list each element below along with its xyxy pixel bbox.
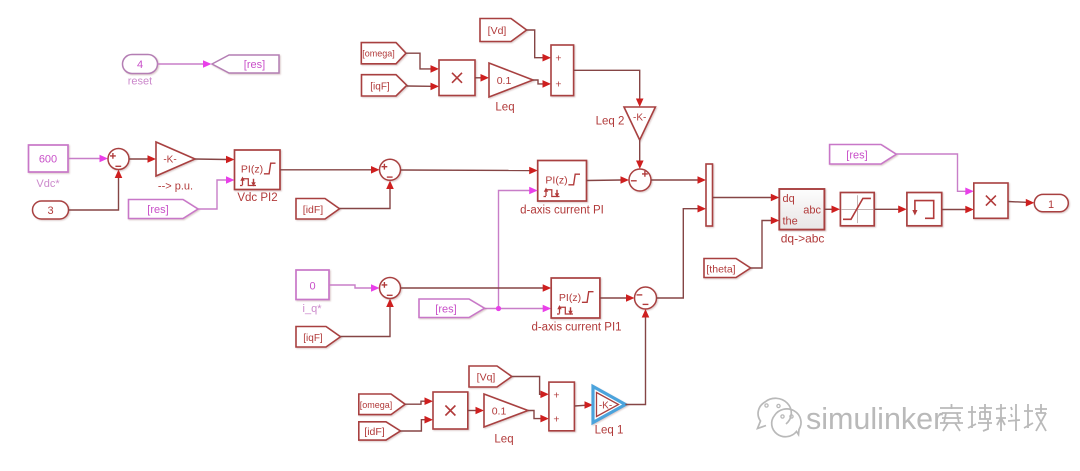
svg-text:abc: abc bbox=[803, 204, 821, 216]
svg-text:0.1: 0.1 bbox=[492, 405, 507, 417]
svg-text:PI(z): PI(z) bbox=[545, 174, 567, 186]
wire saturation to wrap bbox=[874, 206, 907, 214]
svg-text:3: 3 bbox=[47, 205, 53, 217]
svg-text:[idF]: [idF] bbox=[364, 426, 385, 438]
wrap-to-zero block bbox=[907, 193, 942, 226]
wire S4 to PI1 bbox=[401, 284, 552, 292]
wire [theta] to dq-abc bbox=[751, 217, 780, 268]
gain 0.1 Leq (top) bbox=[489, 63, 533, 97]
svg-text:Leq: Leq bbox=[495, 102, 514, 114]
constant 0 (i_q*) bbox=[296, 270, 329, 300]
gain -K- Leq 1 (blue) bbox=[593, 387, 625, 423]
label Leq (bottom) bbox=[494, 434, 513, 446]
wire wrap to product P3 bbox=[942, 206, 974, 214]
PI controller Vdc PI2 bbox=[235, 150, 281, 190]
svg-text:[iqF]: [iqF] bbox=[370, 81, 390, 92]
watermark logo bbox=[758, 398, 802, 436]
wire mux to dq-abc bbox=[713, 194, 780, 202]
svg-text:[omega]: [omega] bbox=[362, 49, 395, 59]
wire S3 to mux bbox=[651, 176, 706, 184]
wire P1 to gain Leq bbox=[475, 74, 489, 82]
wire [iqF] to product P1 bbox=[407, 83, 439, 91]
wire [omega] to product P1 bbox=[406, 53, 439, 72]
wire A2 to gain Leq1 bbox=[574, 401, 593, 409]
label Leq 2 bbox=[596, 116, 625, 128]
svg-text:simulinker: simulinker bbox=[806, 402, 943, 436]
wire [Vd] to sum A1 bbox=[527, 30, 551, 62]
svg-text:-K-: -K- bbox=[163, 155, 176, 166]
wire S5 to mux bbox=[657, 205, 707, 298]
sum S2 bbox=[380, 159, 401, 180]
from tag [omega] F9 bbox=[359, 394, 405, 415]
svg-text:600: 600 bbox=[39, 154, 57, 166]
wire Vdc PI2 to sum S2 bbox=[280, 166, 380, 174]
from tag [idF] F10 bbox=[359, 422, 401, 440]
sum S3 (d-axis) bbox=[629, 169, 651, 191]
wire 3 to sum S1 bbox=[69, 170, 123, 211]
svg-text:Leq 2: Leq 2 bbox=[596, 116, 625, 128]
wire PI1 to sum S5 bbox=[600, 294, 635, 302]
svg-text:reset: reset bbox=[128, 76, 152, 88]
svg-text:+: + bbox=[555, 79, 561, 91]
wire [idF] to product P2 bbox=[401, 416, 434, 431]
label d-axis current PI1 bbox=[531, 322, 621, 334]
svg-text:+: + bbox=[553, 414, 559, 426]
label Vdc PI2 bbox=[237, 192, 277, 204]
sum S5 (q-axis) bbox=[635, 287, 657, 309]
product P1 bbox=[439, 60, 475, 96]
label Vdc* bbox=[36, 178, 60, 190]
watermark text simulinker bbox=[806, 402, 943, 436]
wire 0 to sum S4 bbox=[329, 284, 380, 292]
wire d-axis PI to sum S3 bbox=[587, 176, 630, 184]
svg-text:PI(z): PI(z) bbox=[241, 163, 263, 175]
svg-text:[theta]: [theta] bbox=[706, 263, 735, 275]
product P2 bbox=[433, 392, 468, 429]
svg-text:Leq: Leq bbox=[494, 434, 513, 446]
gain -K- (p.u.) bbox=[156, 142, 195, 176]
svg-text:[res]: [res] bbox=[435, 304, 456, 316]
outport 1 bbox=[1034, 194, 1068, 211]
svg-text:+: + bbox=[555, 52, 561, 64]
sum block A2 bbox=[549, 382, 575, 431]
svg-text:-K-: -K- bbox=[633, 113, 646, 124]
wire Leq1 to sum S5 bbox=[625, 309, 649, 405]
svg-text:1: 1 bbox=[1048, 199, 1054, 211]
PI controller d-axis current PI bbox=[538, 161, 587, 202]
svg-text:[iqF]: [iqF] bbox=[303, 333, 323, 344]
inport 3 bbox=[33, 201, 69, 219]
svg-text:i_q*: i_q* bbox=[303, 303, 323, 315]
svg-text:Vdc*: Vdc* bbox=[36, 178, 60, 190]
wire reset to goto [res] bbox=[158, 60, 212, 68]
gain 0.1 Leq (bottom) bbox=[484, 394, 528, 427]
svg-text:Vdc PI2: Vdc PI2 bbox=[237, 192, 277, 204]
wire A1 to gain Leq2 bbox=[574, 70, 644, 107]
subsystem dq->abc U1 bbox=[779, 189, 824, 230]
from tag [res] F1 bbox=[129, 200, 199, 219]
svg-text:--> p.u.: --> p.u. bbox=[158, 181, 193, 193]
wire [res] net to PI resets bbox=[485, 187, 552, 313]
from tag [Vq] F8 bbox=[469, 366, 512, 387]
wire [Vq] to sum A2 bbox=[512, 377, 549, 399]
wire Leq to sum A1 bbox=[533, 80, 551, 88]
wire dq-abc to saturation bbox=[824, 206, 840, 214]
from tag [omega] F3 bbox=[361, 43, 406, 64]
svg-text:PI(z): PI(z) bbox=[559, 292, 581, 304]
wire Leq2 to sum S3 bbox=[636, 140, 644, 169]
svg-text:[Vq]: [Vq] bbox=[477, 372, 496, 384]
mux bbox=[706, 164, 713, 226]
svg-text:[res]: [res] bbox=[244, 59, 265, 71]
saturation block bbox=[840, 193, 874, 226]
PI controller d-axis current PI1 bbox=[551, 278, 600, 318]
svg-text:d-axis current PI1: d-axis current PI1 bbox=[531, 322, 621, 334]
svg-text:0.1: 0.1 bbox=[497, 75, 512, 87]
product P3 bbox=[974, 183, 1008, 218]
gain -K- Leq 2 (down) bbox=[624, 107, 655, 140]
label d-axis current PI bbox=[520, 205, 604, 217]
from tag [Vd] F5 bbox=[480, 19, 527, 42]
wire [omega] to product P2 bbox=[405, 397, 433, 405]
svg-text:+: + bbox=[553, 389, 559, 401]
svg-text:the: the bbox=[783, 215, 798, 227]
label reset bbox=[128, 76, 152, 88]
from tag [idF] F2 bbox=[296, 199, 340, 220]
wire K1 to Vdc PI2 bbox=[195, 156, 235, 164]
label Leq 1 bbox=[595, 425, 624, 437]
wire P3 to outport 1 bbox=[1008, 199, 1034, 207]
wire P2 to gain Leq b bbox=[468, 407, 484, 415]
from tag [theta] F11 bbox=[704, 259, 751, 278]
svg-text:Leq 1: Leq 1 bbox=[595, 425, 624, 437]
svg-text:0: 0 bbox=[309, 280, 315, 292]
wire S1 to gain K1 bbox=[129, 155, 156, 163]
constant 600 (Vdc*) bbox=[29, 145, 69, 172]
from tag [res] F12 bbox=[830, 145, 897, 165]
sum S4 bbox=[380, 278, 401, 299]
wire Leq to sum A2 bbox=[528, 411, 549, 423]
svg-text:-K-: -K- bbox=[599, 400, 612, 411]
goto tag [res] G1 bbox=[212, 55, 279, 73]
wire 600 to sum S1 bbox=[68, 155, 108, 163]
wire [res] to product P3 bbox=[896, 154, 974, 195]
svg-text:[Vd]: [Vd] bbox=[488, 25, 507, 37]
label dq->abc bbox=[781, 231, 825, 245]
from tag [iqF] F4 bbox=[362, 75, 407, 96]
svg-text:dq->abc: dq->abc bbox=[781, 231, 825, 245]
svg-text:4: 4 bbox=[137, 59, 143, 71]
wire [idF] to sum S2 bbox=[340, 181, 394, 209]
sum S1 bbox=[108, 149, 129, 170]
svg-text:dq: dq bbox=[783, 193, 795, 205]
watermark text 赛博科技 bbox=[940, 404, 1047, 431]
svg-text:[idF]: [idF] bbox=[303, 204, 324, 216]
from tag [res] F6 bbox=[419, 299, 485, 318]
svg-text:[res]: [res] bbox=[846, 149, 867, 161]
wire [iqF] to sum S4 bbox=[341, 299, 394, 337]
wire [res] to Vdc PI2 reset bbox=[198, 176, 235, 209]
svg-text:[res]: [res] bbox=[147, 204, 168, 216]
inport 4 (reset) bbox=[123, 55, 158, 74]
wire S2 to d-axis PI bbox=[401, 167, 538, 175]
svg-text:[omega]: [omega] bbox=[360, 400, 393, 410]
from tag [iqF] F7 bbox=[296, 327, 341, 348]
label Leq (top) bbox=[495, 102, 514, 114]
sum block A1 bbox=[551, 45, 574, 96]
svg-text:d-axis current PI: d-axis current PI bbox=[520, 205, 604, 217]
label i_q* bbox=[303, 303, 323, 315]
